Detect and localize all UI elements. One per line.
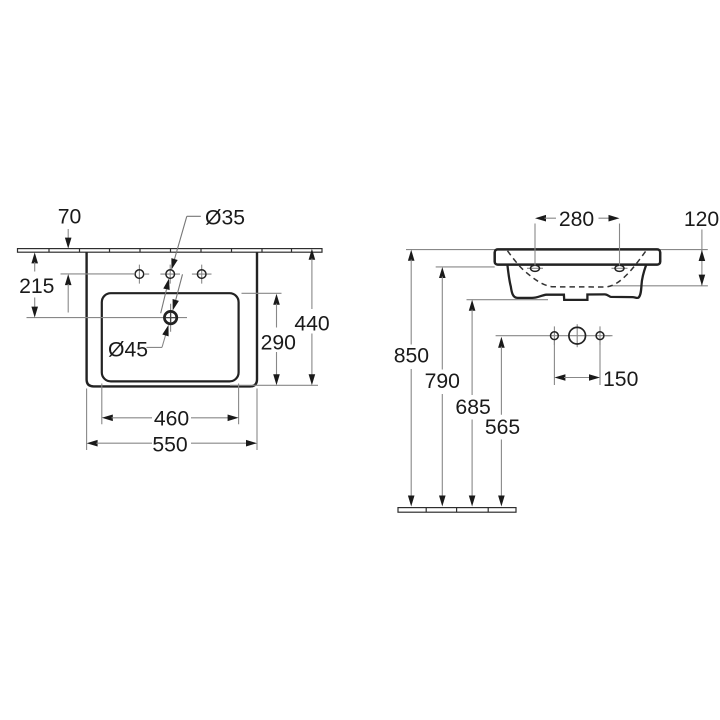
faucet hole middle	[160, 265, 180, 284]
mounting hole right (side)	[612, 265, 628, 271]
top extension line (wall level)	[406, 249, 708, 251]
drain hole center mark	[166, 313, 175, 322]
svg-text:790: 790	[425, 370, 460, 393]
basin outer outline (front)	[87, 252, 257, 386]
dashed bowl profile (hidden line)	[508, 251, 647, 287]
dim 70	[58, 206, 82, 313]
dim 120	[684, 208, 719, 286]
dim 850	[394, 250, 429, 507]
svg-text:290: 290	[261, 332, 296, 355]
dim 460	[102, 408, 239, 431]
extension line basin bottom (685)	[467, 299, 549, 301]
extension line bowl top right	[242, 292, 282, 294]
svg-text:440: 440	[294, 313, 329, 336]
svg-text:550: 550	[152, 433, 187, 456]
dim 685	[455, 300, 490, 507]
faucet holes centerline	[61, 273, 135, 275]
floor line (segmented bar)	[398, 508, 516, 513]
dim 215	[19, 252, 54, 317]
extension lines below (bowl)	[102, 384, 239, 425]
svg-text:Ø35: Ø35	[205, 207, 245, 230]
mounting hole left (side)	[527, 265, 543, 271]
tap hole small right (side)	[596, 326, 610, 345]
svg-text:460: 460	[154, 408, 189, 431]
dim 790	[425, 267, 460, 507]
extension line basin bottom right	[230, 384, 318, 386]
extension line rim bottom left (790)	[436, 266, 495, 268]
drain hole centerline	[27, 304, 188, 332]
inner bowl (front)	[102, 293, 239, 381]
tap holes centerline (565)	[496, 335, 613, 337]
tap hole small left (side)	[551, 326, 559, 345]
dim 290	[261, 294, 296, 385]
svg-text:Ø45: Ø45	[108, 338, 148, 361]
dim 565	[485, 337, 520, 507]
dim 150	[554, 341, 638, 391]
svg-text:70: 70	[58, 206, 82, 229]
dim 440	[294, 249, 329, 386]
rim (side view)	[495, 249, 661, 264]
svg-text:120: 120	[684, 208, 719, 231]
faucet hole left	[135, 265, 149, 284]
svg-text:850: 850	[394, 345, 429, 368]
drain hole Ø45	[164, 311, 176, 323]
tap hole big (side)	[569, 324, 586, 347]
svg-text:215: 215	[19, 275, 54, 298]
extension lines below (outer)	[87, 389, 257, 451]
leader Ø35	[161, 207, 245, 314]
basin body (side view)	[507, 265, 646, 300]
svg-text:280: 280	[559, 208, 594, 231]
dim 280	[535, 208, 620, 266]
leader Ø45	[108, 274, 183, 361]
svg-text:565: 565	[485, 416, 520, 439]
dim 550	[87, 433, 257, 456]
svg-text:150: 150	[603, 368, 638, 391]
wall line (segmented bar above basin)	[18, 249, 323, 253]
faucet hole right	[192, 265, 212, 284]
extension line 120 bottom	[610, 285, 708, 287]
